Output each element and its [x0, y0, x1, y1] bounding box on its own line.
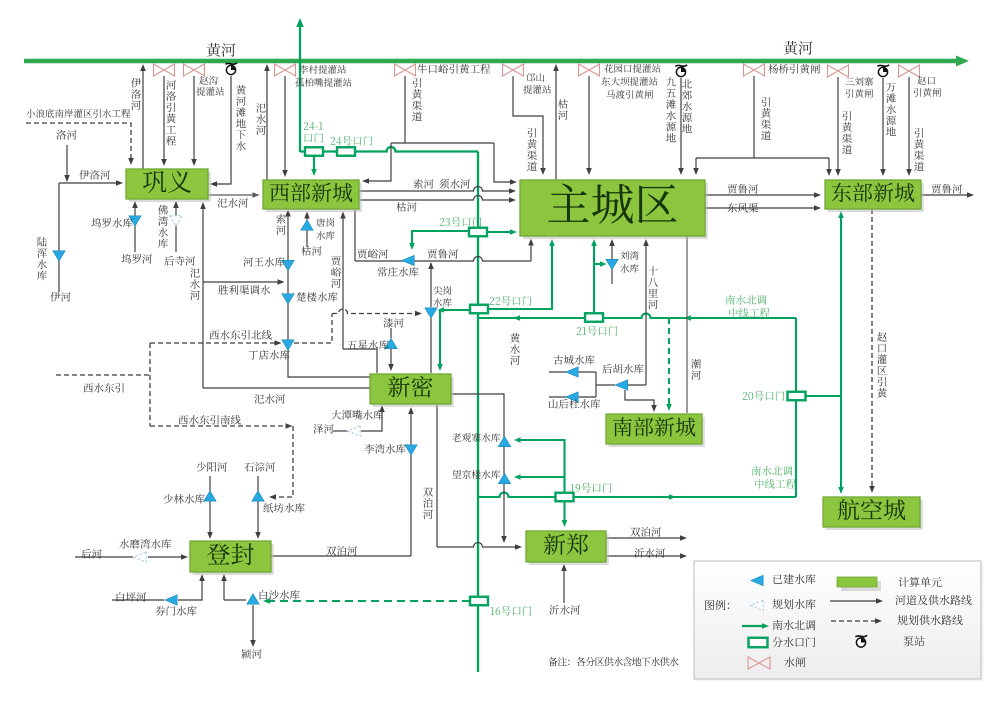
- wire Shuangbo river outflow: [606, 535, 687, 541]
- wire Sishui river to Yellow River: [264, 64, 270, 180]
- label SN-canal middle route (lower): [752, 466, 796, 489]
- label Shaoyang river: [197, 462, 228, 472]
- label Fowan reservoir: [158, 205, 168, 248]
- wire canal branch line 21 horizontal: [478, 314, 796, 321]
- wire Dongfeng canal to East Newtown: [705, 205, 821, 211]
- label gate 16: [491, 606, 532, 616]
- legend pump symbol: [855, 635, 867, 647]
- label Shuimowan reservoir: [119, 539, 171, 549]
- wire Chao river Main City to South Newtown: [686, 236, 688, 413]
- label diversion channel (Sanliuzhai): [842, 111, 852, 154]
- wire Sanliuzhai to East Newtown: [835, 77, 841, 176]
- pump Wantan wellfield: [877, 65, 889, 77]
- valve Licun pump station: [275, 64, 296, 76]
- label Yiluo river (west): [79, 170, 110, 180]
- valve Mangshan pump station: [503, 64, 524, 76]
- label Mangshan pump station: [523, 73, 551, 94]
- label Zhaokou irrigation diversion: [877, 332, 887, 398]
- label gate 23: [440, 217, 482, 227]
- label Ku river (north): [558, 99, 568, 120]
- gate 22: [470, 305, 488, 314]
- label Houhu reservoir: [602, 364, 643, 374]
- label Jiayu river (east): [358, 249, 389, 259]
- wire Zhaogou to Gongyi: [191, 76, 197, 166]
- wire west-east diversion vertical: [149, 343, 151, 426]
- label Suo river: [276, 214, 286, 235]
- wire Yangqiao header split: [696, 157, 829, 159]
- valve Heluo diversion: [154, 64, 175, 76]
- wire floodplain groundwater to Gongyi: [210, 76, 231, 187]
- wire Jialu river from Jiangang junction: [428, 262, 434, 373]
- legend planned reservoir symbol: [751, 600, 763, 610]
- wire SN-canal top horizontal to main drop: [300, 147, 478, 152]
- wire Yangqiao west branch to Main City: [693, 158, 699, 175]
- label Shuangbo river (west): [326, 546, 357, 556]
- label Sanliuzhai sluice: [845, 77, 873, 98]
- wire Ku river through Tanggang reservoir: [304, 212, 310, 248]
- label Ying river: [241, 649, 261, 659]
- reservoir Laoguanzhai: [498, 436, 510, 446]
- valve Niukouyu diversion: [395, 64, 416, 76]
- unit box Xinzheng: [526, 531, 609, 565]
- wire Liuwan river to Main City: [609, 239, 615, 284]
- wire Jialu river outflow east: [921, 192, 974, 198]
- wire Huayuankou to Main City: [586, 76, 592, 175]
- unit box Main City: [520, 180, 708, 239]
- wire Jialu river Main City to East Newtown: [705, 192, 821, 198]
- label legend title: [705, 600, 729, 610]
- wire gate20 to east canal: [806, 395, 842, 397]
- wire west-east diversion south line: [150, 423, 293, 500]
- wire Niukouyu west branch to West Newtown: [362, 143, 391, 184]
- wire wellfield to Main City: [678, 78, 684, 175]
- label Shengli canal transfer: [218, 285, 270, 295]
- label Jialu river (outflow): [932, 184, 963, 194]
- wire SN-canal main vertical: [477, 152, 479, 673]
- label Luo river: [56, 130, 76, 140]
- wire canal feed to Liuwan reservoir: [594, 261, 607, 267]
- label Luhun reservoir: [37, 237, 47, 280]
- label Changzhuang reservoir: [378, 267, 419, 277]
- wire Jiayu river to West Newtown: [340, 212, 377, 374]
- wire gate22 to Main City: [488, 239, 555, 309]
- wire Wantan to East Newtown: [880, 78, 886, 176]
- wire Shibali river to Main City: [643, 239, 649, 385]
- unit box Gongyi: [126, 169, 211, 202]
- unit box Xinmi: [370, 374, 454, 407]
- gate 19: [556, 493, 574, 502]
- label west-east diversion north line: [209, 330, 271, 340]
- label Wuluo reservoir: [91, 218, 132, 228]
- label legend pump station: [904, 636, 925, 646]
- wire West Newtown outfall to Jialu river: [355, 210, 534, 261]
- legend river route symbol: [830, 598, 883, 604]
- label Shaolin reservoir: [164, 494, 205, 504]
- label Laoguanzhai reservoir: [452, 433, 500, 442]
- label Huangshui river: [510, 333, 520, 365]
- label legend SN-canal: [773, 620, 816, 630]
- pump Jiuwutan/Beijiao wellfield: [675, 65, 687, 77]
- label Heluo Yellow-River diversion project: [166, 80, 176, 145]
- gate 24: [337, 147, 355, 156]
- label gate 19: [571, 483, 612, 493]
- label Baisha reservoir: [260, 590, 300, 600]
- label Dongfeng canal: [727, 203, 758, 213]
- wire Suo/Xushui rivers to Main City: [359, 187, 516, 203]
- wire 24-1 outlet to West Newtown: [311, 156, 317, 176]
- label Wantan wellfield: [886, 83, 896, 136]
- pump Yellow River floodplain groundwater: [225, 63, 237, 75]
- legend built reservoir symbol: [751, 575, 763, 585]
- label Zhifang reservoir: [263, 503, 304, 513]
- reservoir Gucheng: [566, 367, 578, 377]
- reservoir Dingdian: [282, 340, 294, 350]
- wire gate23 to Main City: [487, 229, 517, 235]
- wire Shuangbo river Xinmi to Xinzheng: [437, 404, 522, 550]
- label Ze river: [313, 424, 333, 434]
- label Shibali river: [648, 266, 658, 309]
- wire Baiping river through Quanmen reservoir to Dengfeng: [112, 574, 205, 600]
- label Quanmen reservoir: [155, 606, 196, 616]
- reservoir Quanmen: [165, 595, 177, 605]
- gate 21: [585, 313, 603, 322]
- unit box East Newtown: [825, 180, 924, 212]
- reservoir Shanhoudu: [566, 392, 578, 402]
- reservoir Houhu: [615, 380, 627, 390]
- reservoir Liwan: [405, 445, 417, 455]
- wire Yangqiao east branch to East Newtown: [826, 158, 832, 176]
- label Yi river: [50, 292, 70, 302]
- label Huayuankou / Dongdaba / Madu stations: [601, 64, 660, 99]
- reservoir Shuimowan (planned): [134, 552, 146, 562]
- unit box West Newtown: [263, 180, 362, 212]
- label diversion channel (Mangshan): [527, 128, 537, 171]
- wire Ku river to Yellow River: [553, 64, 559, 180]
- wire Qi river through Wuxing reservoir: [388, 328, 394, 371]
- wire Yi river through Luhun reservoir: [58, 183, 60, 292]
- wire gate23 to Changzhuang reservoir: [409, 231, 469, 250]
- wire Zhaokou irrigation dashed: [869, 209, 875, 493]
- wire Xiaolangdi dashed diversion: [26, 123, 134, 165]
- label legend river route: [895, 595, 971, 605]
- wire west-east diversion stub: [56, 374, 150, 376]
- label Baiping river: [117, 592, 146, 602]
- reservoir Changzhuang: [402, 255, 414, 265]
- label legend built reservoir: [773, 574, 816, 584]
- valve Zhaogou pump station: [184, 64, 205, 76]
- reservoir Tanggang: [301, 220, 313, 230]
- label Wuxing reservoir: [347, 340, 388, 350]
- wire Shuangbo river Dengfeng leg through Liwan reservoir: [271, 407, 414, 556]
- reservoir Wuluo: [129, 216, 141, 226]
- reservoir Jiangang: [425, 308, 437, 318]
- label Jialu river (east): [728, 184, 759, 194]
- label Yiluo river (vertical): [131, 78, 141, 110]
- wire gate19 riser with reservoir branches: [514, 437, 565, 492]
- wire canal line 19 horizontal: [478, 493, 796, 500]
- label Xiaolangdi south-bank irrigation diversion: [26, 109, 130, 118]
- wire canal east loop vertical: [795, 318, 797, 497]
- wire SN-canal crossing Yellow River (chuanhuang): [296, 18, 304, 152]
- wire Suo river with reservoirs to Xinmi: [285, 210, 370, 378]
- wire Yellow River main channel: [24, 56, 969, 67]
- wire reservoir header to South Newtown: [625, 390, 657, 412]
- wire east canal to Airport City: [838, 396, 844, 494]
- label Dingdian reservoir: [249, 350, 290, 360]
- valve Sanliuzhai sluice: [828, 65, 849, 77]
- label Tanggang reservoir: [316, 218, 334, 240]
- label Sishui river (east): [217, 198, 248, 208]
- label Sishui river (south): [254, 394, 285, 404]
- gate 24-1: [305, 147, 323, 156]
- label Yellow River (right): [784, 41, 813, 55]
- label legend planned route: [897, 615, 962, 625]
- reservoir Hewang: [282, 260, 294, 270]
- label Chao river: [691, 359, 701, 380]
- label Hewang reservoir: [243, 257, 284, 267]
- label Datanzui reservoir: [331, 410, 383, 420]
- gate 23: [469, 228, 487, 237]
- label gate 22: [490, 296, 532, 306]
- label SN-canal middle route (upper): [726, 295, 770, 318]
- label Niukouyu diversion project: [417, 64, 490, 74]
- wire Shibali river reservoir header: [549, 372, 646, 397]
- label Shuangbo river (vertical): [423, 487, 433, 519]
- label Shicong river: [244, 462, 275, 472]
- label diversion channel (Niukouyu): [412, 78, 422, 121]
- label Shanhoudu reservoir: [549, 399, 600, 409]
- label Wuluo river: [121, 254, 152, 264]
- wire Shicong river through Zhifang reservoir: [255, 476, 261, 539]
- label Jialu river (west): [428, 249, 459, 259]
- label diversion channel (Yangqiao): [761, 97, 771, 140]
- label Jiuwutan wellfield: [666, 77, 676, 142]
- wire Shaoyang river through Shaolin reservoir: [207, 476, 213, 539]
- valve Yangqiao sluice: [744, 64, 765, 76]
- legend planned route symbol: [831, 618, 882, 624]
- reservoir Datanzui (planned): [348, 426, 360, 436]
- label Yangqiao sluice: [768, 64, 820, 74]
- reservoir Fowan (planned): [170, 216, 182, 226]
- label gate 24-1: [304, 122, 324, 143]
- wire Licun station to West Newtown: [282, 76, 288, 177]
- wire gate21 riser to Main City: [591, 239, 597, 313]
- wire canal dashed drop to South Newtown: [666, 318, 672, 411]
- unit box Dengfeng: [190, 541, 274, 575]
- wire Yiluo river to Yellow River: [140, 64, 146, 169]
- label Ku river (south): [301, 246, 321, 256]
- legend box: [694, 561, 984, 682]
- legend sluice symbol: [748, 657, 770, 669]
- label legend sluice: [784, 657, 805, 667]
- label Sishui river (north): [256, 103, 266, 135]
- label gate 21: [577, 326, 618, 336]
- reservoir Luhun: [53, 251, 65, 261]
- label west-east diversion south line: [178, 415, 240, 425]
- wire Niukouyu channel: [404, 76, 406, 143]
- label Ku river (between cities): [396, 202, 416, 212]
- label Housi river: [164, 256, 195, 266]
- unit box Airport City: [823, 497, 923, 530]
- gate 20: [788, 392, 806, 401]
- legend gate symbol: [749, 638, 768, 648]
- wire Luo river inflow: [64, 145, 70, 182]
- wire gate22 to Jiangang reservoir: [437, 307, 469, 371]
- label Qi river: [383, 318, 403, 328]
- wire Hou river through Shuimowan reservoir to Dengfeng: [75, 554, 188, 560]
- wire Niukouyu split header: [391, 142, 494, 144]
- label Jiayu river (vertical): [331, 256, 341, 288]
- label Chulou reservoir: [297, 292, 338, 302]
- label Sishui river (mid): [190, 268, 200, 300]
- wire Baisha reservoir link to Dengfeng: [221, 574, 246, 600]
- wire Zhaokou to East Newtown: [906, 77, 912, 176]
- wire Yiluo river to Gongyi: [59, 180, 123, 186]
- legend SN-canal symbol: [742, 623, 769, 629]
- valve Zhaokou sluice: [899, 65, 920, 77]
- wire Yishui river outflow: [606, 553, 687, 559]
- wire Yangqiao channel header: [753, 76, 755, 158]
- gate 16: [470, 597, 488, 606]
- wire Sishui river Gongyi to West Newtown: [208, 192, 260, 198]
- reservoir Shaolin: [204, 491, 216, 501]
- wire west-east diversion north line: [150, 309, 422, 346]
- label Zhaokou sluice: [914, 76, 941, 97]
- label Wangjinglou reservoir: [452, 470, 500, 479]
- wire Ying river outflow: [250, 605, 256, 647]
- reservoir Baisha: [247, 594, 259, 604]
- legend computing unit symbol: [837, 577, 881, 591]
- wire east canal to East Newtown: [838, 211, 844, 396]
- reservoir Wuxing: [385, 338, 397, 348]
- wire Shengli canal transfer: [203, 279, 285, 285]
- wire Mangshan channel to Main City: [513, 76, 546, 175]
- label legend gate: [772, 637, 815, 647]
- label gate 24: [331, 136, 373, 146]
- label west-east diversion: [83, 383, 123, 393]
- reservoir Wangjinglou: [498, 473, 510, 483]
- label Suo river / Xushui river: [413, 179, 470, 189]
- unit box South Newtown: [606, 414, 705, 447]
- reservoir Liuwan: [606, 259, 618, 269]
- label Zhaogou pump station: [196, 76, 224, 96]
- label legend planned reservoir: [772, 599, 815, 609]
- label diversion channel (Zhaokou): [914, 128, 924, 171]
- reservoir Zhifang: [252, 491, 264, 501]
- label Yishui river (south): [549, 605, 580, 615]
- wire Huangshui river from Xinmi: [451, 394, 507, 543]
- label Shuangbo river (east): [630, 527, 661, 537]
- wire Yishui river into Xinzheng: [561, 564, 567, 603]
- label Hou river: [81, 549, 101, 559]
- valve Huayuankou stations: [579, 64, 600, 76]
- wire Ze river through Datanzui reservoir to Xinmi: [333, 405, 385, 431]
- label gate 20: [743, 391, 785, 401]
- reservoir Chulou: [282, 294, 294, 304]
- label legend computing unit: [898, 577, 941, 587]
- wire Niukouyu east branch to Main City: [494, 143, 517, 185]
- label Liuwan reservoir: [620, 251, 638, 273]
- label floodplain groundwater: [236, 85, 246, 151]
- label Beijiao wellfield: [682, 79, 692, 133]
- label Gucheng reservoir: [554, 355, 595, 365]
- label Liwan reservoir: [364, 444, 405, 454]
- label Licun / Gubozui pump stations: [295, 65, 351, 87]
- label note: [548, 657, 678, 666]
- label Yellow River (left): [207, 43, 236, 57]
- wire Heluo diversion to Gongyi: [161, 76, 167, 166]
- label Jiangang reservoir: [433, 286, 451, 307]
- wire Wuluo river through Wuluo reservoir: [132, 201, 138, 252]
- wire gate19 drop to Xinzheng: [562, 501, 568, 527]
- wire Housi river through Fowan reservoir: [173, 201, 179, 252]
- wire Sishui river south leg to Xinmi: [200, 202, 370, 388]
- wire gate16 dashed to Baisha reservoir: [263, 598, 470, 604]
- label Yishui river (east): [634, 548, 665, 558]
